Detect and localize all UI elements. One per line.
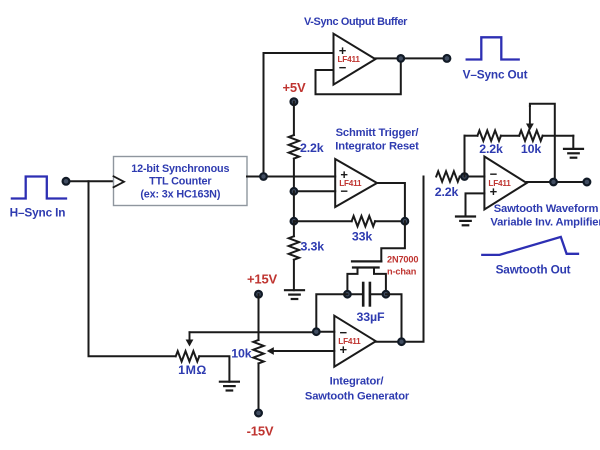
counter label line 3 (140, 189, 221, 201)
label n-chan (387, 267, 417, 277)
label 3.3k (301, 240, 325, 254)
resistor R 3.3k (289, 236, 299, 260)
wire cap right lead (370, 293, 386, 295)
label 2.2k pull-up (300, 141, 324, 155)
svg-text:2N7000: 2N7000 (387, 255, 418, 265)
counter label line 2 (149, 176, 212, 188)
wire H-Sync input to counter (66, 180, 114, 182)
wire feedback rail right (543, 135, 574, 137)
node amp output junction (550, 179, 557, 186)
node cap left junction (344, 291, 351, 298)
wire +5V to resistor (293, 102, 295, 135)
H-Sync In label (10, 206, 66, 220)
node integrator minus junction (313, 328, 320, 335)
svg-text:Sawtooth Waveform: Sawtooth Waveform (494, 203, 599, 215)
wire amp output (527, 181, 587, 183)
counter clock input symbol (114, 176, 125, 187)
svg-text:Variable Inv. Amplifier: Variable Inv. Amplifier (490, 217, 600, 229)
ground amp plus (456, 217, 475, 226)
counter U1 box (114, 157, 248, 206)
potentiometer R 1M (176, 351, 200, 361)
transistor Q1 source lead (347, 268, 357, 295)
Sawtooth Out waveform icon (482, 237, 578, 255)
svg-text:−: − (339, 60, 347, 75)
wire wiper bracket (530, 104, 555, 182)
resistor R 2.2k amp input (436, 171, 460, 181)
svg-text:3.3k: 3.3k (301, 240, 325, 254)
wire buffer output (375, 57, 447, 59)
wire 3.3k top lead (293, 221, 295, 236)
Schmitt trigger title line 1 (336, 127, 419, 139)
node counter output junction (260, 173, 267, 180)
wire cap left to integrator minus (316, 294, 347, 332)
svg-text:+: + (490, 184, 498, 199)
svg-text:V–Sync Out: V–Sync Out (463, 68, 528, 82)
svg-text:1MΩ: 1MΩ (178, 363, 207, 377)
wire buffer feedback loop (316, 58, 401, 94)
svg-text:+: + (340, 342, 348, 357)
wire integrator output (376, 177, 424, 342)
wire 3.3k bottom lead (293, 260, 295, 290)
wire amp plus to ground (466, 193, 485, 216)
capacitor C1 33uF plates (363, 283, 370, 305)
wire 33k rail right (375, 220, 405, 222)
node V-Sync Out terminal (444, 55, 451, 62)
integrator title line 2 (305, 390, 410, 402)
svg-text:33µF: 33µF (357, 310, 385, 324)
wire integrator plus input (267, 347, 335, 355)
wire 33k rail left (294, 220, 352, 222)
wire Schmitt output (377, 183, 405, 221)
svg-text:2.2k: 2.2k (479, 142, 503, 156)
wire up to V-sync buffer + input (264, 53, 334, 177)
Sawtooth Out label (496, 263, 571, 277)
node +5V (291, 98, 298, 105)
amplifier title line 2 (490, 217, 600, 229)
arrow 10k wiper (526, 106, 534, 131)
op-amp U4 LF411 integrator (334, 316, 376, 367)
svg-text:+15V: +15V (247, 272, 278, 287)
op-amp U5 LF411 variable amp (484, 157, 526, 210)
arrow 1M wiper (186, 332, 194, 346)
label 10k feedback (521, 142, 541, 156)
-15V label (247, 424, 274, 439)
wire 2.2k to minus node (293, 159, 295, 192)
ground feedback right (564, 136, 583, 158)
svg-text:Schmitt Trigger/: Schmitt Trigger/ (336, 127, 419, 139)
wire pot to -15V (258, 363, 260, 413)
wire 33k junction to gate (381, 221, 405, 261)
svg-text:+5V: +5V (282, 80, 306, 95)
svg-text:10k: 10k (521, 142, 541, 156)
transistor Q1 drain lead (374, 268, 386, 295)
node H-Sync In terminal (63, 178, 70, 185)
wire +15V to pot (258, 294, 260, 340)
wire minus junction up to feedback (464, 136, 466, 177)
op-amp U3 LF411 Schmitt (335, 159, 377, 207)
wire counter output rail (247, 176, 335, 178)
+15V label (247, 272, 278, 287)
resistor R 2.2k pull-up (289, 135, 299, 159)
node +15V (255, 291, 262, 298)
V-Sync Out label (463, 68, 528, 82)
ground below 1M (220, 382, 239, 391)
H-Sync In pulse waveform icon (12, 177, 66, 199)
resistor R 2.2k feedback (477, 131, 501, 141)
integrator title line 1 (330, 376, 384, 388)
wire feedback rail left (465, 135, 478, 137)
amplifier title line 1 (494, 203, 599, 215)
wire 2.2k input right lead (460, 176, 485, 178)
svg-text:TTL Counter: TTL Counter (149, 176, 212, 188)
+5V label (282, 80, 306, 95)
label 2.2k feedback (479, 142, 503, 156)
node cap right junction (383, 291, 390, 298)
node 33k right junction (402, 218, 409, 225)
wire 1M wiper rail (190, 331, 335, 334)
wire minus node down to divider (293, 191, 295, 221)
potentiometer R 10k feedback (519, 131, 543, 141)
V-Sync Out pulse waveform icon (467, 37, 519, 59)
Schmitt trigger title line 2 (335, 141, 419, 153)
label 2N7000 (387, 255, 418, 265)
node Schmitt minus junction (291, 188, 298, 195)
svg-text:H–Sync In: H–Sync In (10, 206, 66, 220)
svg-text:Sawtooth Out: Sawtooth Out (496, 263, 571, 277)
svg-text:Integrator/: Integrator/ (330, 376, 384, 388)
node buffer output junction (398, 55, 405, 62)
transistor Q1 channel bar (353, 266, 379, 268)
wire 1M right lead (199, 356, 229, 381)
node -15V (255, 410, 262, 417)
node integrator output junction (398, 338, 405, 345)
svg-text:33k: 33k (352, 230, 372, 244)
svg-text:2.2k: 2.2k (300, 141, 324, 155)
transistor Q1 2N7000 gate bar (352, 260, 381, 262)
svg-text:V-Sync Output Buffer: V-Sync Output Buffer (304, 16, 408, 28)
svg-text:2.2k: 2.2k (435, 185, 459, 199)
svg-text:12-bit Synchronous: 12-bit Synchronous (131, 163, 229, 175)
label 33k (352, 230, 372, 244)
svg-text:−: − (340, 183, 348, 198)
wire H-Sync down to 1M pot (89, 181, 176, 356)
label 33uF (357, 310, 385, 324)
wire Schmitt minus input (294, 190, 335, 192)
potentiometer R 10k (253, 340, 263, 364)
node divider junction (291, 218, 298, 225)
svg-text:(ex: 3x HC163N): (ex: 3x HC163N) (140, 189, 221, 201)
svg-text:10k: 10k (231, 347, 251, 361)
wire cap right to integrator output (386, 294, 402, 342)
node amp minus junction (461, 173, 468, 180)
op-amp U2 LF411 buffer (334, 34, 376, 85)
counter label line 1 (131, 163, 229, 175)
svg-text:Integrator Reset: Integrator Reset (335, 141, 419, 153)
wire cap left lead (347, 293, 363, 295)
resistor R 33k (352, 216, 376, 226)
label 2.2k amp input (435, 185, 459, 199)
ground below 3.3k (285, 290, 304, 299)
svg-text:n-chan: n-chan (387, 267, 417, 277)
svg-text:Sawtooth Generator: Sawtooth Generator (305, 390, 410, 402)
svg-text:-15V: -15V (247, 424, 274, 439)
wire feedback rail mid (501, 135, 519, 137)
label 10k (231, 347, 251, 361)
V-Sync Output Buffer title (304, 16, 408, 28)
label 1M (178, 363, 207, 377)
node sawtooth out terminal (584, 179, 591, 186)
